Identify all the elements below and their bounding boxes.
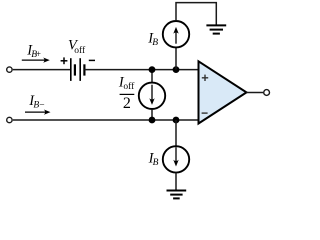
current source IB top <box>163 21 189 70</box>
wire output <box>247 92 264 94</box>
svg-text:+: + <box>36 50 41 60</box>
input terminal IB+ <box>7 67 12 72</box>
battery Voff <box>71 58 85 81</box>
wire top IB to ground <box>176 3 216 25</box>
svg-text:B: B <box>152 38 158 48</box>
ground top right <box>206 25 226 33</box>
label IB top <box>147 30 158 48</box>
battery minus sign <box>89 59 95 61</box>
junction dot top-left node <box>149 66 156 73</box>
wire bottom line <box>13 119 199 121</box>
label Ioff/2 <box>118 74 135 112</box>
wire top line right (battery to op-amp) <box>84 69 199 71</box>
svg-text:off: off <box>74 45 86 56</box>
label IB+ current arrow <box>22 42 50 62</box>
current source Ioff/2 <box>139 70 165 120</box>
svg-text:−: − <box>39 101 44 111</box>
op-amp U1 <box>199 61 247 123</box>
ground bottom <box>167 191 187 199</box>
svg-text:off: off <box>123 81 135 92</box>
junction dot bottom-right node <box>173 117 180 124</box>
battery plus sign <box>61 57 68 64</box>
junction dot top-right node <box>173 66 180 73</box>
label Voff <box>68 37 86 56</box>
op-amp plus input marker <box>202 75 208 81</box>
wire top line left (terminal to battery) <box>13 69 70 71</box>
current source IB bottom <box>163 120 189 190</box>
junction dot bottom-left node <box>149 117 156 124</box>
svg-text:B: B <box>153 158 159 168</box>
op-amp minus input marker <box>202 112 208 114</box>
label IB bottom <box>148 151 159 169</box>
input terminal IB- <box>7 117 12 122</box>
output terminal <box>264 90 270 96</box>
label IB- current arrow <box>25 93 51 115</box>
svg-text:2: 2 <box>123 95 131 112</box>
